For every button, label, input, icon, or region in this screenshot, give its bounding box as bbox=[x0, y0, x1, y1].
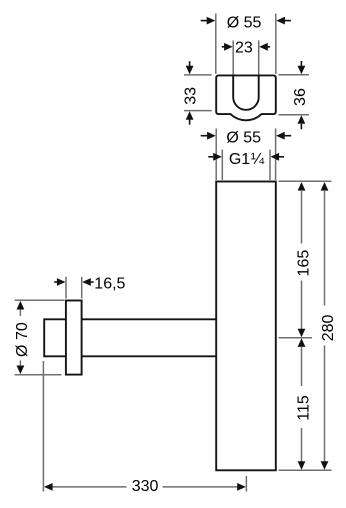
holder body outline (plan view rectangle) bbox=[216, 75, 276, 120]
dim Ø55 bottom: left extension line bbox=[215, 129, 217, 181]
dim 280: top arrow (pointing up) bbox=[321, 182, 329, 191]
svg-text:¼: ¼ bbox=[251, 151, 265, 168]
dim 330: dimension line left segment bbox=[51, 486, 127, 488]
dim 23: right extension line bbox=[258, 41, 260, 75]
dim 115: line upper segment bbox=[301, 347, 303, 387]
svg-text:Ø 70: Ø 70 bbox=[14, 322, 31, 357]
dim 280: line lower segment bbox=[324, 346, 326, 463]
outlet pipe (horizontal) top line bbox=[44, 318, 216, 320]
dim 115: bottom arrow (pointing down) bbox=[298, 461, 306, 470]
dim 36: upper arrow (pointing down) bbox=[300, 61, 302, 66]
dim 330: left arrow (pointing left) bbox=[44, 483, 53, 491]
dim 330: right arrow (pointing right) bbox=[237, 483, 246, 491]
dim 23: left extension line bbox=[232, 41, 234, 75]
dim Ø70: bottom extension line bbox=[15, 374, 62, 376]
outlet pipe bottom line bbox=[44, 355, 216, 357]
svg-text:23: 23 bbox=[235, 40, 253, 57]
outlet pipe left end cap bbox=[43, 318, 45, 357]
svg-text:280: 280 bbox=[320, 315, 337, 342]
dim 36: lower arrow (pointing up) bbox=[300, 124, 302, 129]
dim Ø70: top extension line bbox=[15, 299, 65, 301]
svg-text:Ø 55: Ø 55 bbox=[227, 14, 262, 31]
dim Ø70: top arrow (pointing up) bbox=[17, 301, 25, 310]
dim 165: bottom arrow (pointing down, at centerline) bbox=[298, 329, 306, 338]
dim 36: top extension line bbox=[279, 74, 310, 76]
dim Ø55 bottom: left arrow bbox=[201, 135, 208, 137]
svg-text:16,5: 16,5 bbox=[94, 275, 125, 292]
svg-text:36: 36 bbox=[292, 88, 309, 106]
wall flange (escutcheon) bbox=[66, 301, 82, 375]
dim 33: bottom extension line bbox=[184, 110, 212, 112]
dim Ø70: dimension line lower segment bbox=[19, 361, 21, 370]
dim G1¼: left extension line bbox=[221, 150, 223, 181]
right dims: pipe centerline extension tick bbox=[279, 337, 313, 339]
dim 33: lower arrow (pointing up) bbox=[189, 119, 191, 124]
dim 33: upper arrow (pointing down) bbox=[189, 61, 191, 66]
svg-text:33: 33 bbox=[183, 87, 200, 105]
dim 23: right arrow bbox=[267, 46, 270, 48]
dim 165: line lower segment bbox=[301, 281, 303, 330]
dim Ø55 bottom: right extension line bbox=[275, 129, 277, 181]
dim 330: left extension line bbox=[42, 361, 44, 492]
dim Ø55 top: right extension line bbox=[275, 14, 277, 75]
svg-text:Ø 55: Ø 55 bbox=[226, 130, 261, 147]
dim 330: right extension line (body centerline) bbox=[245, 476, 247, 492]
trap body (vertical) bbox=[216, 182, 276, 471]
dim Ø55 bottom: right arrow bbox=[284, 135, 291, 137]
dim 16,5: left extension line bbox=[65, 277, 67, 299]
dim 115: line lower segment bbox=[301, 428, 303, 462]
dim 23: left arrow bbox=[222, 46, 225, 48]
dim Ø55 top: left extension line bbox=[215, 14, 217, 75]
dim 280: bottom arrow (pointing down) bbox=[321, 461, 329, 470]
dim 16,5: left arrow bbox=[54, 281, 57, 283]
dim Ø70: bottom arrow (pointing down) bbox=[17, 366, 25, 375]
dim Ø55 top: left arrow bbox=[201, 20, 208, 22]
svg-text:115: 115 bbox=[295, 395, 312, 421]
dim 280: line upper segment bbox=[324, 190, 326, 306]
dim G1¼: left arrow bbox=[208, 156, 213, 158]
dim G1¼: right arrow bbox=[279, 156, 284, 158]
svg-text:G1: G1 bbox=[229, 151, 250, 168]
dim Ø55 top: right arrow bbox=[284, 20, 291, 22]
right dims: top extension line (body top) bbox=[279, 180, 332, 182]
dim G1¼: right extension line bbox=[269, 150, 271, 181]
right dims: bottom extension line (body bottom) bbox=[279, 469, 332, 471]
dim 330: dimension line right segment bbox=[163, 486, 239, 488]
svg-text:165: 165 bbox=[295, 250, 312, 277]
dim 165: line upper segment bbox=[301, 190, 303, 244]
dim 115: top arrow (pointing up, at centerline) bbox=[298, 338, 306, 347]
dim 16,5: right arrow bbox=[91, 281, 94, 283]
dim Ø70: dimension line upper segment bbox=[19, 306, 21, 316]
dim 16,5: right extension line bbox=[81, 277, 83, 299]
U-shaped cup recess bbox=[233, 75, 259, 109]
dim 36: bottom extension line bbox=[279, 114, 310, 116]
dim 33: top extension line bbox=[184, 74, 212, 76]
dim 165: top arrow (pointing up) bbox=[298, 182, 306, 191]
svg-text:330: 330 bbox=[132, 478, 159, 495]
